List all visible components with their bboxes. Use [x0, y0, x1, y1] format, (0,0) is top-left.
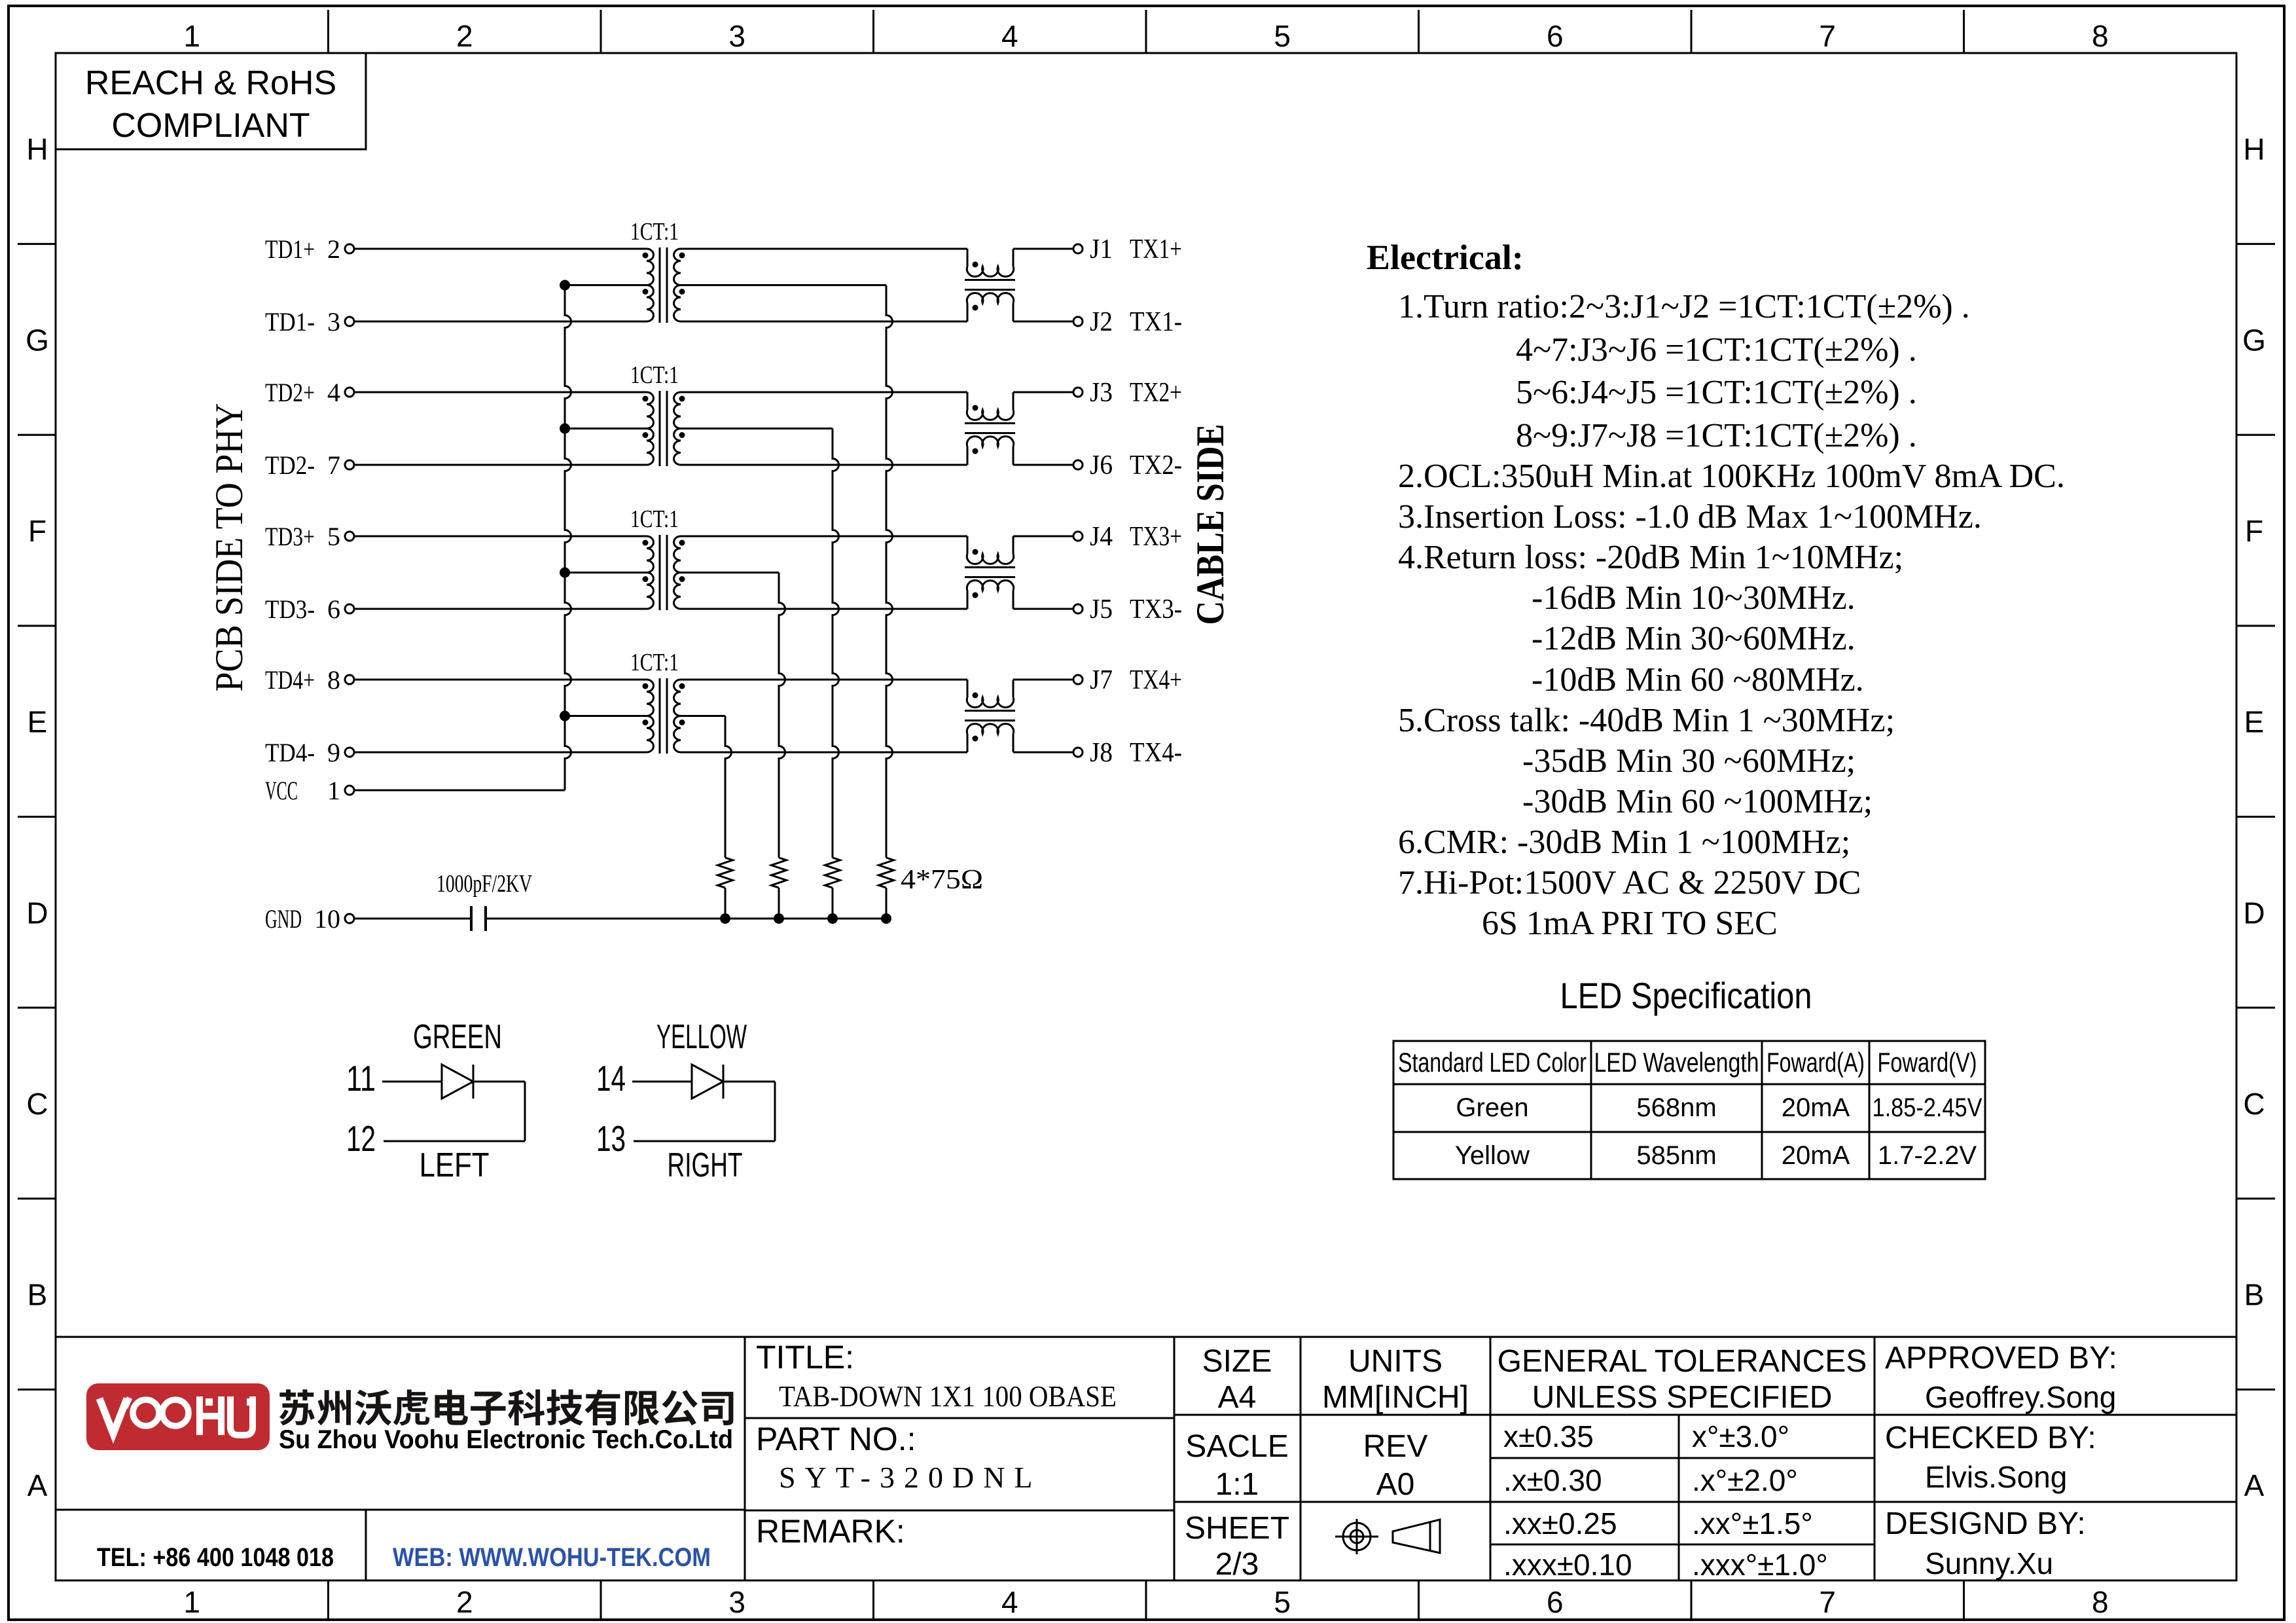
svg-text:Yellow: Yellow	[1455, 1141, 1530, 1170]
svg-text:TX1-: TX1-	[1130, 307, 1182, 337]
wire choke L2 to pin J6	[1013, 464, 1073, 466]
svg-text:1.7-2.2V: 1.7-2.2V	[1878, 1141, 1977, 1170]
wire GND pin to capacitor C1	[354, 918, 471, 920]
junction node T3 primary center tap	[560, 568, 570, 578]
wire center tap T4	[565, 715, 647, 717]
svg-text:UNLESS SPECIFIED: UNLESS SPECIFIED	[1532, 1380, 1833, 1415]
wire TD3+ to transformer primary	[354, 536, 647, 538]
wire TD4+ to transformer primary	[354, 679, 647, 681]
wire center tap T1	[565, 284, 647, 286]
svg-text:-10dB Min 60 ~80MHz.: -10dB Min 60 ~80MHz.	[1532, 661, 1864, 699]
svg-text:Electrical:: Electrical:	[1367, 238, 1524, 277]
svg-text:Standard LED Color: Standard LED Color	[1398, 1047, 1587, 1078]
svg-text:F: F	[2245, 514, 2263, 548]
svg-text:5.Cross talk: -40dB Min 1 ~30M: 5.Cross talk: -40dB Min 1 ~30MHz;	[1398, 702, 1895, 739]
svg-text:1: 1	[327, 776, 340, 805]
row boundary ticks left and right	[18, 244, 2275, 1390]
title block grid	[56, 1337, 2236, 1580]
svg-text:x±0.35: x±0.35	[1503, 1419, 1594, 1453]
resistor R1 75 ohm	[718, 858, 733, 888]
wire T2 secondary top to choke L2	[681, 392, 967, 393]
svg-text:C: C	[2243, 1087, 2265, 1121]
svg-text:F: F	[28, 514, 46, 548]
svg-text:COMPLIANT: COMPLIANT	[111, 107, 310, 145]
svg-text:1CT:1: 1CT:1	[630, 649, 679, 676]
resistor R2 75 ohm	[772, 858, 787, 888]
svg-text:8: 8	[2092, 1585, 2109, 1619]
wire center tap T2	[565, 428, 647, 429]
svg-text:GND: GND	[265, 904, 302, 934]
wire vertical drop from T2 center tap with bridge hops	[833, 429, 839, 858]
svg-text:TX3+: TX3+	[1130, 522, 1182, 552]
svg-text:7: 7	[327, 450, 340, 480]
svg-text:PART NO.:: PART NO.:	[756, 1421, 916, 1457]
svg-text:VCC: VCC	[265, 776, 298, 805]
svg-text:6.CMR: -30dB Min 1 ~100MHz;: 6.CMR: -30dB Min 1 ~100MHz;	[1398, 824, 1850, 861]
svg-text:J6: J6	[1090, 450, 1113, 481]
LED GREEN (LEFT)	[346, 1058, 525, 1159]
svg-text:UNITS: UNITS	[1348, 1344, 1443, 1379]
column numbers top	[183, 19, 2108, 53]
wire TD2+ to transformer primary	[354, 392, 647, 393]
wire resistor R3 to GND rail	[832, 888, 834, 919]
svg-text:APPROVED BY:: APPROVED BY:	[1885, 1341, 2117, 1376]
svg-text:1CT:1: 1CT:1	[630, 218, 679, 246]
pin TD1+ (2)	[265, 234, 354, 264]
wire TD1+ to transformer primary	[354, 248, 647, 250]
svg-text:Geoffrey.Song: Geoffrey.Song	[1925, 1380, 2116, 1414]
svg-text:TX3-: TX3-	[1130, 594, 1182, 625]
row letters right	[2242, 132, 2266, 1503]
svg-text:H: H	[26, 132, 48, 166]
svg-text:-30dB Min 60 ~100MHz;: -30dB Min 60 ~100MHz;	[1522, 783, 1873, 820]
svg-text:J2: J2	[1090, 307, 1113, 337]
pin J3 TX2+	[1073, 378, 1182, 408]
svg-text:TAB-DOWN 1X1 100 OBASE: TAB-DOWN 1X1 100 OBASE	[779, 1379, 1117, 1413]
svg-text:1: 1	[183, 1585, 200, 1619]
pin VCC (1)	[265, 776, 354, 805]
wire vertical drop from T1 center tap with bridge hops	[886, 285, 893, 858]
center-tap bus wire (VCC rail) with bridge hops	[565, 285, 571, 791]
svg-text:Sunny.Xu: Sunny.Xu	[1925, 1546, 2053, 1580]
pin TD4- (9)	[265, 738, 354, 767]
pin TD3- (6)	[265, 594, 354, 624]
wire choke L3 to pin J4	[1013, 536, 1073, 538]
svg-text:4~7:J3~J6 =1CT:1CT(±2%) .: 4~7:J3~J6 =1CT:1CT(±2%) .	[1516, 331, 1917, 369]
svg-text:TITLE:: TITLE:	[756, 1339, 854, 1376]
transformer T3 1CT:1	[630, 505, 685, 610]
svg-text:TD2+: TD2+	[265, 378, 315, 407]
svg-text:TX4+: TX4+	[1130, 665, 1182, 695]
svg-text:LED Specification: LED Specification	[1560, 975, 1812, 1016]
svg-text:x°±3.0°: x°±3.0°	[1692, 1419, 1789, 1453]
wire T1 secondary center tap to resistor R4	[681, 284, 886, 286]
svg-text:J5: J5	[1090, 594, 1113, 625]
wire vertical drop from T3 center tap with bridge hops	[779, 573, 785, 858]
svg-text:8: 8	[2092, 19, 2109, 53]
common-mode choke L2	[965, 392, 1015, 465]
svg-text:E: E	[27, 705, 48, 739]
svg-text:8~9:J7~J8 =1CT:1CT(±2%) .: 8~9:J7~J8 =1CT:1CT(±2%) .	[1516, 417, 1917, 454]
svg-text:6: 6	[327, 594, 340, 624]
svg-text:.x±0.30: .x±0.30	[1503, 1463, 1602, 1497]
svg-text:REV: REV	[1363, 1429, 1428, 1464]
svg-text:585nm: 585nm	[1636, 1141, 1716, 1170]
wire TD4- to transformer primary	[354, 752, 647, 754]
svg-text:G: G	[2242, 323, 2266, 357]
svg-text:.xxx±0.10: .xxx±0.10	[1503, 1548, 1632, 1582]
svg-text:MM[INCH]: MM[INCH]	[1322, 1380, 1469, 1415]
svg-text:SYT-320DNL: SYT-320DNL	[779, 1461, 1042, 1494]
svg-text:2: 2	[327, 234, 340, 264]
svg-text:2/3: 2/3	[1215, 1547, 1259, 1582]
svg-text:D: D	[2243, 896, 2265, 930]
svg-text:13: 13	[596, 1118, 626, 1159]
junction node resistor R2 on GND rail	[774, 913, 784, 924]
pin J4 TX3+	[1073, 522, 1182, 552]
svg-text:TD1-: TD1-	[265, 307, 315, 337]
svg-text:6: 6	[1547, 1585, 1564, 1619]
svg-text:TX4-: TX4-	[1130, 738, 1182, 768]
svg-text:GENERAL TOLERANCES: GENERAL TOLERANCES	[1498, 1344, 1867, 1379]
wire T3 secondary top to choke L3	[681, 536, 967, 538]
wire center tap T3	[565, 572, 647, 574]
wire TD3- to transformer primary	[354, 608, 647, 610]
pin J7 TX4+	[1073, 665, 1182, 695]
svg-text:B: B	[27, 1278, 48, 1312]
column boundary ticks top and bottom	[329, 10, 1964, 1618]
svg-text:1.85-2.45V: 1.85-2.45V	[1873, 1093, 1982, 1122]
svg-text:DESIGND BY:: DESIGND BY:	[1885, 1506, 2086, 1541]
electrical specification text	[1367, 238, 2065, 942]
common-mode choke L4	[965, 680, 1015, 752]
row letters left	[26, 132, 49, 1503]
svg-text:Foward(A): Foward(A)	[1767, 1047, 1865, 1078]
svg-text:Elvis.Song: Elvis.Song	[1925, 1460, 2067, 1494]
svg-text:9: 9	[327, 738, 340, 767]
svg-text:3.Insertion Loss: -1.0 dB Max: 3.Insertion Loss: -1.0 dB Max 1~100MHz.	[1398, 498, 1982, 536]
svg-text:A: A	[2244, 1468, 2265, 1503]
svg-text:5~6:J4~J5 =1CT:1CT(±2%) .: 5~6:J4~J5 =1CT:1CT(±2%) .	[1516, 374, 1917, 411]
LED Specification table	[1393, 1041, 1985, 1179]
svg-text:Foward(V): Foward(V)	[1878, 1047, 1977, 1078]
svg-text:20mA: 20mA	[1782, 1141, 1850, 1170]
wire choke L2 to pin J3	[1013, 392, 1073, 393]
LED YELLOW (RIGHT)	[596, 1058, 775, 1159]
svg-text:YELLOW: YELLOW	[656, 1018, 747, 1056]
svg-text:20mA: 20mA	[1782, 1093, 1850, 1122]
svg-text:REACH & RoHS: REACH & RoHS	[85, 64, 336, 102]
svg-text:-16dB Min 10~30MHz.: -16dB Min 10~30MHz.	[1532, 579, 1856, 617]
svg-text:SHEET: SHEET	[1185, 1511, 1289, 1546]
pin TD1- (3)	[265, 307, 354, 337]
wire TD2- to transformer primary	[354, 464, 647, 466]
transformer T2 1CT:1	[630, 361, 685, 466]
pin J8 TX4-	[1073, 738, 1182, 768]
svg-text:Green: Green	[1456, 1093, 1528, 1122]
junction node T2 primary center tap	[560, 424, 570, 434]
svg-text:4*75Ω: 4*75Ω	[901, 865, 983, 895]
pin J6 TX2-	[1073, 450, 1182, 481]
svg-text:3: 3	[728, 1585, 745, 1619]
svg-text:RIGHT: RIGHT	[668, 1146, 743, 1184]
pin J5 TX3-	[1073, 594, 1182, 625]
wire T4 secondary center tap to resistor R1	[681, 715, 725, 717]
wire T4 secondary top to choke L4	[681, 679, 967, 681]
wire T2 secondary center tap to resistor R3	[681, 428, 833, 429]
pin TD3+ (5)	[265, 522, 354, 551]
svg-text:.xx°±1.5°: .xx°±1.5°	[1692, 1506, 1813, 1541]
svg-text:5: 5	[327, 522, 340, 551]
svg-text:J1: J1	[1090, 234, 1113, 264]
junction node resistor R4 on GND rail	[881, 913, 891, 924]
svg-text:1CT:1: 1CT:1	[630, 361, 679, 389]
svg-text:14: 14	[596, 1058, 626, 1099]
svg-text:3: 3	[327, 307, 340, 337]
svg-text:B: B	[2244, 1278, 2265, 1312]
svg-text:3: 3	[728, 19, 745, 53]
common-mode choke L1	[965, 249, 1015, 321]
svg-text:4: 4	[1001, 19, 1018, 53]
svg-text:1:1: 1:1	[1215, 1467, 1259, 1502]
junction node T4 primary center tap	[560, 711, 570, 721]
svg-text:8: 8	[327, 665, 340, 695]
svg-text:C: C	[26, 1087, 48, 1121]
svg-text:E: E	[2244, 705, 2265, 739]
svg-text:GREEN: GREEN	[413, 1018, 502, 1056]
pin TD2+ (4)	[265, 378, 354, 407]
svg-text:A4: A4	[1218, 1380, 1257, 1415]
svg-text:CHECKED BY:: CHECKED BY:	[1885, 1421, 2096, 1455]
svg-text:TX1+: TX1+	[1130, 234, 1182, 264]
svg-text:TX2-: TX2-	[1130, 450, 1182, 481]
svg-text:TD4+: TD4+	[265, 665, 315, 695]
svg-text:7: 7	[1819, 19, 1836, 53]
column numbers bottom	[183, 1585, 2108, 1619]
VOOHU logo wordmark	[99, 1396, 254, 1435]
svg-text:4.Return loss: -20dB Min 1~1: 4.Return loss: -20dB Min 1~10MHz;	[1398, 539, 1903, 576]
wire T1 secondary top to choke L1	[681, 248, 967, 250]
svg-text:TEL: +86 400 1048 018: TEL: +86 400 1048 018	[97, 1543, 334, 1572]
junction node resistor R3 on GND rail	[827, 913, 838, 924]
svg-text:7.Hi-Pot:1500V AC & 2250V DC: 7.Hi-Pot:1500V AC & 2250V DC	[1398, 864, 1861, 902]
svg-text:J7: J7	[1090, 665, 1113, 695]
wire T3 secondary center tap to resistor R2	[681, 572, 779, 574]
svg-text:-35dB Min 30 ~60MHz;: -35dB Min 30 ~60MHz;	[1522, 742, 1856, 780]
svg-text:1000pF/2KV: 1000pF/2KV	[437, 870, 532, 898]
svg-text:TD1+: TD1+	[265, 234, 315, 264]
junction node T1 primary center tap	[560, 280, 570, 291]
svg-text:TX2+: TX2+	[1130, 378, 1182, 408]
wire choke L1 to pin J1	[1013, 248, 1073, 250]
wire T2 secondary bottom to choke L2	[681, 464, 967, 466]
pin TD4+ (8)	[265, 665, 354, 695]
capacitor C1 1000pF/2KV	[437, 870, 532, 931]
junction node resistor R1 on GND rail	[720, 913, 730, 924]
svg-text:LEFT: LEFT	[420, 1146, 490, 1184]
svg-text:Su Zhou Voohu Electronic Tech.: Su Zhou Voohu Electronic Tech.Co.Ltd	[279, 1425, 733, 1454]
svg-text:6S 1mA PRI TO SEC: 6S 1mA PRI TO SEC	[1482, 905, 1778, 942]
svg-text:11: 11	[346, 1058, 376, 1099]
svg-text:A: A	[27, 1468, 48, 1503]
svg-text:CABLE SIDE: CABLE SIDE	[1189, 424, 1232, 625]
svg-text:2: 2	[456, 19, 473, 53]
wire choke L4 to pin J7	[1013, 679, 1073, 681]
svg-text:.xxx°±1.0°: .xxx°±1.0°	[1692, 1548, 1828, 1582]
svg-text:J4: J4	[1090, 522, 1113, 552]
VOOHU logo red box	[86, 1383, 270, 1450]
common-mode choke L3	[965, 536, 1015, 609]
wire choke L1 to pin J2	[1013, 321, 1073, 323]
svg-text:2: 2	[456, 1585, 473, 1619]
pin J2 TX1-	[1073, 307, 1182, 337]
wire resistor R4 to GND rail	[886, 888, 888, 919]
wire VCC to center-tap bus	[354, 790, 565, 792]
svg-text:SIZE: SIZE	[1202, 1344, 1272, 1379]
svg-text:TD2-: TD2-	[265, 450, 315, 480]
svg-text:7: 7	[1819, 1585, 1836, 1619]
wire choke L4 to pin J8	[1013, 752, 1073, 754]
svg-text:1.Turn ratio:2~3:J1~J2 =1CT:1C: 1.Turn ratio:2~3:J1~J2 =1CT:1CT(±2%) .	[1398, 288, 1970, 325]
resistor R3 75 ohm	[825, 858, 840, 888]
wire T4 secondary bottom to choke L4	[681, 752, 967, 754]
svg-text:LED Wavelength: LED Wavelength	[1594, 1047, 1759, 1078]
svg-text:J3: J3	[1090, 378, 1113, 408]
svg-text:10: 10	[314, 904, 340, 934]
wire T1 secondary bottom to choke L1	[681, 321, 967, 323]
svg-text:A0: A0	[1376, 1467, 1415, 1502]
svg-text:5: 5	[1274, 1585, 1291, 1619]
wire vertical drop from T4 center tap with bridge hops	[725, 716, 732, 858]
svg-text:J8: J8	[1090, 738, 1113, 768]
svg-text:-12dB Min 30~60MHz.: -12dB Min 30~60MHz.	[1532, 620, 1856, 657]
svg-text:D: D	[26, 896, 48, 930]
wire TD1- to transformer primary	[354, 321, 647, 323]
wire T3 secondary bottom to choke L3	[681, 608, 967, 610]
svg-text:2.OCL:350uH Min.at 100KHz 100m: 2.OCL:350uH Min.at 100KHz 100mV 8mA DC.	[1398, 458, 2065, 495]
GND rail wire	[486, 918, 886, 920]
svg-text:SACLE: SACLE	[1185, 1429, 1288, 1464]
resistor R4 75 ohm	[879, 858, 894, 888]
svg-text:1CT:1: 1CT:1	[630, 505, 679, 533]
svg-text:.xx±0.25: .xx±0.25	[1503, 1506, 1617, 1541]
svg-text:4: 4	[1001, 1585, 1018, 1619]
svg-text:WEB: WWW.WOHU-TEK.COM: WEB: WWW.WOHU-TEK.COM	[393, 1543, 711, 1572]
svg-text:REMARK:: REMARK:	[756, 1513, 905, 1550]
wire resistor R2 to GND rail	[778, 888, 780, 919]
svg-text:G: G	[26, 323, 49, 357]
pin J1 TX1+	[1073, 234, 1182, 264]
transformer T1 1CT:1	[630, 218, 685, 323]
wire resistor R1 to GND rail	[725, 888, 726, 919]
svg-text:PCB SIDE TO PHY: PCB SIDE TO PHY	[207, 403, 251, 692]
svg-text:568nm: 568nm	[1636, 1093, 1716, 1122]
REACH and RoHS compliance box	[56, 53, 366, 149]
svg-text:.x°±2.0°: .x°±2.0°	[1692, 1463, 1798, 1497]
pin GND (10)	[265, 904, 354, 934]
wire choke L3 to pin J5	[1013, 608, 1073, 610]
svg-text:H: H	[2243, 132, 2265, 166]
svg-text:12: 12	[346, 1118, 376, 1159]
svg-text:5: 5	[1274, 19, 1291, 53]
company name Chinese characters	[279, 1389, 734, 1425]
pin TD2- (7)	[265, 450, 354, 480]
svg-text:TD4-: TD4-	[265, 738, 315, 767]
projection angle symbol	[1335, 1519, 1440, 1554]
transformer T4 1CT:1	[630, 649, 685, 754]
svg-text:TD3-: TD3-	[265, 594, 315, 624]
svg-text:6: 6	[1547, 19, 1564, 53]
svg-text:1: 1	[183, 19, 200, 53]
svg-text:TD3+: TD3+	[265, 522, 315, 551]
svg-text:4: 4	[327, 378, 340, 407]
